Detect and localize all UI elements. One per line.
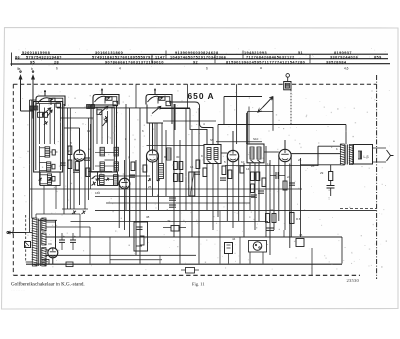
wire drops PSU bbox=[89, 227, 91, 264]
svg-text:57975432319487: 57975432319487 bbox=[26, 55, 62, 59]
feedback network bbox=[296, 239, 304, 247]
svg-text:+: + bbox=[74, 234, 76, 238]
wire loop right bbox=[272, 97, 274, 131]
mains voltage selector bbox=[25, 242, 31, 248]
IF transformer S9 secondary bbox=[214, 148, 218, 160]
RF tuned circuit C1b tuning capacitor arc bbox=[95, 96, 110, 102]
svg-text:650 A: 650 A bbox=[188, 91, 215, 101]
chassis boundary right chain line bbox=[376, 75, 378, 279]
svg-text:Fig. 11: Fig. 11 bbox=[192, 282, 205, 287]
RF trimmer c5 bbox=[114, 147, 118, 156]
chassis bottom dashed line bbox=[13, 274, 360, 276]
aerial tuned circuit C1a trimmer capacitor 1 bbox=[49, 98, 55, 102]
aerial coil link wires bbox=[39, 146, 41, 185]
tuning indicator arrow 2 bbox=[258, 107, 264, 113]
wire heater segment bbox=[110, 259, 162, 261]
svg-text:10: 10 bbox=[241, 160, 245, 164]
mains input plug bbox=[8, 231, 26, 234]
RF box rotor arrow bbox=[103, 120, 108, 126]
parts list column ticks bbox=[151, 55, 153, 63]
resistor R24 bbox=[262, 178, 266, 187]
valve V1 leads bbox=[79, 128, 81, 150]
svg-text:43: 43 bbox=[44, 254, 48, 258]
valve V3 IF amplifier bbox=[227, 150, 238, 161]
RF box trimmer bbox=[97, 110, 102, 115]
aerial box trimmer pair bbox=[38, 112, 43, 117]
svg-text:R.6: R.6 bbox=[296, 217, 301, 221]
svg-text:86: 86 bbox=[15, 55, 20, 59]
wire right verticals bbox=[317, 146, 319, 166]
svg-text:194821993: 194821993 bbox=[244, 51, 267, 55]
svg-text:b: b bbox=[31, 67, 33, 71]
svg-text:28: 28 bbox=[311, 164, 315, 168]
valve V2 mixer-oscillator bbox=[147, 150, 159, 162]
wire left column pair bbox=[29, 100, 31, 232]
svg-text:25: 25 bbox=[148, 185, 152, 189]
wire output cathode drop bbox=[311, 248, 313, 276]
wire drops bottom bbox=[219, 211, 221, 264]
capacitor C33 bbox=[266, 227, 274, 229]
tone switch unit bbox=[186, 268, 195, 274]
reservoir capacitor C36 bbox=[59, 239, 65, 241]
resistor R2 bbox=[68, 160, 72, 169]
valve V5 anode leads bbox=[46, 249, 48, 251]
wire transformer top bbox=[36, 213, 80, 215]
capacitor C17 bbox=[194, 171, 200, 173]
aerial coil L3 bbox=[47, 174, 51, 184]
aerial tuned circuit C1a rotor arrow bbox=[42, 108, 51, 115]
RF coil assembly L5-L8 outer shield box bbox=[91, 105, 117, 172]
coupling capacitor C28 bbox=[275, 172, 277, 179]
svg-text:38528084: 38528084 bbox=[326, 60, 347, 64]
RF tuned circuit C1b rotor arrow bbox=[99, 106, 108, 113]
aerial coil assembly L1-L4 wave switch contacts bbox=[39, 178, 52, 181]
svg-text:24: 24 bbox=[287, 175, 291, 179]
RF trimmer c6 bbox=[114, 162, 118, 171]
RF tuned circuit C1b inner shield line bbox=[105, 97, 117, 104]
valve V4 output pentode bbox=[279, 149, 291, 161]
svg-text:91390996030824628: 91390996030824628 bbox=[175, 51, 219, 55]
capacitor C24 bbox=[251, 194, 257, 196]
tuning indicator arrow bbox=[263, 97, 273, 107]
RF coil assembly L5-L8 internal wires bbox=[96, 107, 98, 144]
power transformer T1 core bbox=[37, 219, 39, 267]
resistor R11 bbox=[174, 162, 178, 170]
rectifier valve V5 bbox=[48, 248, 58, 258]
resistor R16 bbox=[196, 160, 200, 169]
RF coil L7 bbox=[100, 175, 105, 185]
fuse link bbox=[42, 260, 49, 265]
capacitor C15 bbox=[169, 197, 176, 199]
svg-text:a: a bbox=[260, 66, 262, 70]
wire pick-up bbox=[249, 252, 251, 264]
wire V3 verticals bbox=[243, 163, 245, 237]
svg-text:815901396245957117777412154728: 8159013962459571177774121547280 bbox=[226, 60, 305, 64]
RF tuned circuit C1b shield can bbox=[93, 95, 119, 105]
wire gang vertical a bbox=[63, 104, 65, 214]
tone capacitor C30 bbox=[289, 182, 295, 184]
svg-text:38: 38 bbox=[146, 215, 150, 219]
wire speaker return bbox=[300, 164, 340, 166]
chassis boundary top dashed line bbox=[13, 83, 283, 85]
wire heater line bbox=[46, 254, 196, 256]
RF band switch arrows bbox=[92, 176, 96, 185]
oscillator shield box bbox=[147, 104, 175, 130]
RF box switch cross bbox=[104, 116, 108, 120]
wire mains to transformer bbox=[26, 232, 32, 234]
output transformer T2 secondary bbox=[349, 145, 352, 165]
aerial box rotor arrow bbox=[48, 110, 53, 116]
svg-text:42: 42 bbox=[270, 208, 274, 212]
valve V7 AF detector bbox=[119, 178, 130, 189]
capacitor C19 bbox=[220, 177, 226, 179]
terminal block bbox=[66, 262, 73, 267]
aerial box switch cross bbox=[44, 121, 48, 125]
IF transformer S9 trimmers bbox=[208, 161, 218, 163]
RF tuned circuit C1b top connection stub bbox=[101, 89, 103, 95]
RF coil assembly L5-L8 bottom shield box bbox=[98, 172, 118, 186]
resistor R1 bbox=[68, 146, 72, 155]
wire earth lead down bbox=[32, 84, 34, 118]
wire stage2 down a bbox=[125, 104, 127, 210]
resistor R9 bbox=[131, 162, 135, 171]
svg-text:4,6: 4,6 bbox=[344, 67, 349, 71]
aerial tuned circuit C1a tuning capacitor arc bbox=[38, 98, 53, 104]
wire bus 4 bbox=[95, 210, 377, 212]
capacitor C5 bbox=[73, 169, 79, 171]
svg-text:S10: S10 bbox=[253, 137, 259, 141]
wire HT loop end bbox=[341, 237, 343, 264]
resistor R4 bbox=[86, 168, 90, 177]
loudspeaker voice coil bbox=[358, 151, 362, 159]
oscillator coil L9 bbox=[159, 164, 164, 179]
oscillator tuned circuit C1c rotor arrow bbox=[152, 106, 161, 113]
svg-text:Golfbereikschakelaar in K.G.-s: Golfbereikschakelaar in K.G.-stand. bbox=[11, 281, 85, 288]
band switch contact S2 bbox=[87, 105, 90, 109]
parts list row 3 bbox=[30, 60, 347, 64]
IF transformer S9 shield bbox=[204, 145, 221, 164]
mains switch dashed link bbox=[25, 215, 27, 262]
IF transformer S10 secondary bbox=[257, 147, 261, 159]
oscillator tuned circuit C1c tuning capacitor arc bbox=[148, 96, 163, 102]
RF tuned circuit C1b trimmer capacitor 2 bbox=[113, 101, 118, 105]
grid resistor R30 bbox=[283, 181, 287, 190]
dial lamp bbox=[286, 74, 290, 78]
capacitor C25 bbox=[258, 190, 264, 192]
oscillator switch contacts bbox=[148, 178, 160, 181]
aerial circuit resistor r3 bbox=[52, 176, 55, 181]
resistor R19 bbox=[228, 170, 232, 179]
wire mid vertical b bbox=[139, 108, 141, 264]
oscillator tuned circuit C1c inner shield line bbox=[158, 97, 170, 104]
resistor R21 bbox=[251, 172, 255, 181]
capacitor C4 bbox=[61, 162, 66, 164]
aerial tuned circuit C1a trimmer capacitor 2 bbox=[56, 103, 61, 107]
earth terminal B bbox=[32, 76, 35, 85]
aerial coil L2 bbox=[47, 162, 51, 171]
svg-text:166: 166 bbox=[95, 191, 100, 195]
chassis boundary top dashed line right segment bbox=[292, 83, 377, 85]
loudspeaker LS frame bbox=[354, 145, 373, 165]
resistor R28 bbox=[329, 172, 333, 181]
parts list table rule middle bbox=[15, 58, 388, 60]
oscillator coil L10 bbox=[167, 148, 172, 160]
wire mid verticals 2 bbox=[179, 140, 181, 264]
aerial coil assembly L1-L4 internal wires bbox=[39, 104, 41, 145]
valve V7 leads bbox=[124, 160, 126, 178]
wire oscillator anode route bbox=[171, 102, 213, 145]
svg-text:14: 14 bbox=[246, 167, 250, 171]
valve V1 base contacts bbox=[72, 210, 86, 214]
wire transformer tap bbox=[330, 165, 332, 172]
wire bus 6 bbox=[95, 175, 150, 177]
parts list table rule top bbox=[21, 53, 388, 55]
IF transformer S10 shield bbox=[247, 144, 264, 163]
resistor R20 bbox=[240, 166, 244, 173]
wire IFT1 verticals bbox=[206, 164, 208, 211]
wire AVC bus bbox=[30, 188, 302, 190]
wire bus 124 bbox=[218, 124, 346, 126]
oscillator tuned circuit C1c trimmer capacitor 2 bbox=[166, 101, 171, 105]
capacitor C16 bbox=[169, 204, 176, 206]
aerial coil L1 bbox=[45, 147, 50, 157]
RF coil L6 bbox=[100, 162, 104, 171]
svg-text:. . . . . . . . .: . . . . . . . . . bbox=[11, 288, 25, 292]
RF coil links bbox=[104, 152, 114, 154]
svg-text:52601815908: 52601815908 bbox=[22, 51, 50, 55]
wire HT bus bbox=[57, 107, 190, 109]
svg-text:a: a bbox=[19, 67, 21, 71]
dial lamp resistor bbox=[284, 82, 291, 90]
valve V3 leads bbox=[232, 131, 234, 150]
parts list table rule bottom bbox=[11, 63, 391, 65]
svg-text:33079244026: 33079244026 bbox=[330, 55, 358, 59]
chassis boundary left dashed line bbox=[12, 84, 14, 275]
svg-text:40: 40 bbox=[167, 219, 171, 223]
svg-text:8190937: 8190937 bbox=[334, 51, 352, 55]
wire stage3 verticals bbox=[156, 123, 158, 181]
IF transformer S10 trimmers bbox=[251, 160, 261, 162]
IF transformer S9 primary bbox=[207, 148, 211, 160]
output transformer T2 primary bbox=[341, 144, 345, 165]
valve V2 leads bbox=[152, 123, 154, 150]
wire mixer grid route bbox=[160, 109, 207, 145]
resistor R23 bbox=[251, 184, 255, 193]
svg-text:V9: V9 bbox=[48, 242, 52, 246]
output transformer T2 core bbox=[345, 145, 347, 165]
svg-text:51: 51 bbox=[298, 51, 303, 55]
wave switch unit bbox=[171, 226, 179, 232]
oscillator tuned circuit C1c trimmer capacitor 1 bbox=[159, 97, 165, 101]
svg-text:30166131860: 30166131860 bbox=[95, 51, 123, 55]
capacitor C40 bbox=[327, 185, 335, 187]
svg-text:28: 28 bbox=[54, 60, 59, 64]
aerial tuned circuit C1a shield can bbox=[36, 96, 65, 106]
aerial tuned circuit C1a top connection stub bbox=[44, 90, 46, 96]
power transformer T1 secondary bbox=[42, 218, 46, 231]
RF coil assembly L5-L8 wave switch contacts bbox=[96, 178, 109, 181]
RF coil L5 bbox=[100, 147, 104, 156]
wire HT supply line bbox=[46, 236, 342, 238]
aerial coil assembly L1-L4 bottom shield box bbox=[40, 172, 60, 186]
volume control R15 bbox=[189, 172, 195, 196]
parts list row 1 bbox=[22, 51, 352, 55]
oscillator tuned circuit C1c shield can bbox=[146, 95, 172, 105]
aerial coil assembly L1-L4 outer shield box bbox=[34, 102, 63, 173]
RF tuned circuit C1b trimmer capacitor 1 bbox=[106, 97, 112, 101]
wire HT top loop bbox=[224, 96, 262, 98]
wire IF top link bbox=[216, 141, 262, 143]
resistor R10 bbox=[143, 165, 147, 172]
capacitor C12 bbox=[129, 174, 135, 176]
wire bus 5 bbox=[71, 220, 269, 222]
wire speaker leads bbox=[373, 147, 386, 149]
wire AVC link stage1-2 bbox=[60, 117, 93, 119]
wire rectifier cathode bbox=[52, 258, 54, 264]
svg-text:15: 15 bbox=[190, 165, 194, 169]
wire IF coupling bbox=[225, 165, 318, 167]
wire detector line bbox=[147, 145, 205, 147]
aerial coil assembly L1-L4 inner shield box bbox=[36, 104, 61, 171]
parts list row 2 bbox=[15, 55, 382, 59]
svg-text:S9: S9 bbox=[210, 138, 214, 142]
wire IFT2 verticals bbox=[254, 163, 256, 230]
svg-text:17: 17 bbox=[267, 162, 271, 166]
electrolytic capacitor C34 bbox=[225, 243, 233, 254]
svg-text:95: 95 bbox=[30, 60, 35, 64]
wire bus 2 bbox=[95, 196, 255, 198]
svg-text:30: 30 bbox=[176, 155, 180, 159]
svg-text:1049746507529170342366: 1049746507529170342366 bbox=[170, 55, 226, 59]
resistor R31 pair bbox=[266, 214, 270, 223]
capacitor C7 bbox=[84, 157, 90, 159]
oscillator tuned circuit C1c top connection stub bbox=[154, 89, 156, 95]
svg-text:7127684268465632122: 7127684268465632122 bbox=[246, 55, 295, 59]
resistor R13 bbox=[174, 174, 178, 182]
smoothing capacitor C37 bbox=[70, 239, 76, 241]
antenna terminal A bbox=[19, 76, 22, 85]
resistor R26 bbox=[290, 213, 295, 224]
svg-text:+: + bbox=[63, 234, 65, 238]
svg-text:29: 29 bbox=[320, 171, 324, 175]
aerial tuned circuit C1a inner shield line bbox=[51, 98, 63, 105]
svg-text:92: 92 bbox=[193, 60, 198, 64]
bypass capacitor C31 box bbox=[134, 222, 148, 251]
svg-text:b: b bbox=[56, 67, 58, 71]
wire oscillator feedback route bbox=[163, 120, 216, 122]
wire osc vertical bbox=[236, 84, 238, 144]
svg-text:26: 26 bbox=[298, 158, 302, 162]
wire oscillator internals bbox=[149, 123, 151, 150]
wire antenna lead down bbox=[20, 84, 22, 111]
IF transformer S10 primary bbox=[250, 147, 254, 159]
band switch contact S1 bbox=[30, 106, 33, 110]
wire output transformer top bbox=[318, 145, 340, 147]
svg-text:4: 4 bbox=[119, 67, 121, 71]
wire stage2 down b bbox=[129, 108, 131, 237]
heater wires bbox=[46, 221, 56, 223]
parts list table left tick bbox=[11, 53, 13, 67]
svg-text:1147: 1147 bbox=[155, 55, 165, 59]
resistor R17 bbox=[203, 168, 207, 177]
svg-text:23530: 23530 bbox=[347, 278, 360, 283]
RF coil assembly L5-L8 inner shield box bbox=[93, 107, 114, 170]
parts list footnotes bbox=[17, 66, 349, 71]
aerial circuit resistor r1 bbox=[52, 150, 55, 155]
pick-up sockets bbox=[253, 242, 262, 251]
resistor R12 bbox=[179, 162, 183, 170]
loudspeaker unit dashed link bbox=[340, 208, 377, 210]
wire bus 3 bbox=[106, 202, 250, 204]
wire coupling verticals bbox=[273, 165, 275, 230]
svg-text:859: 859 bbox=[374, 55, 382, 59]
svg-text:90786666176031372159010: 90786666176031372159010 bbox=[105, 60, 164, 64]
resistor R18 bbox=[222, 166, 226, 175]
wire mid vertical a bbox=[135, 160, 137, 255]
svg-text:44: 44 bbox=[232, 237, 236, 241]
wire dial lamp down bbox=[290, 90, 292, 125]
wire earth return bbox=[26, 263, 342, 265]
svg-text:12: 12 bbox=[87, 129, 91, 133]
component value labels bbox=[44, 122, 338, 258]
wire V4 anode to transformer bbox=[291, 153, 340, 155]
aerial circuit resistor r2 bbox=[52, 164, 55, 169]
valve V1 RF amplifier bbox=[74, 150, 85, 161]
power transformer T1 primary bbox=[32, 218, 37, 266]
svg-text:6: 6 bbox=[206, 67, 208, 71]
RF trimmer c7 bbox=[114, 175, 119, 185]
resistor R14 bbox=[179, 174, 183, 182]
resistor R22 bbox=[256, 172, 260, 181]
loudspeaker cone bbox=[387, 150, 394, 161]
valve V4 leads bbox=[284, 140, 286, 149]
svg-text:45: 45 bbox=[299, 233, 303, 237]
